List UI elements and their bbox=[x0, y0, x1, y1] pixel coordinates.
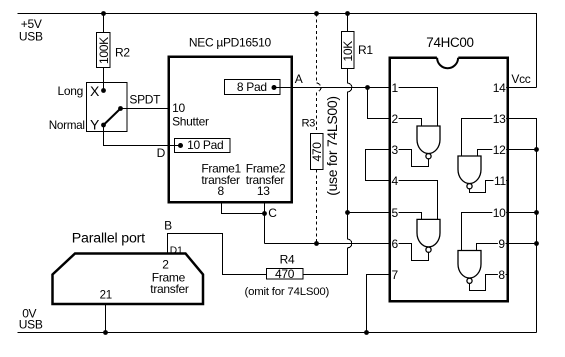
svg-text:100K: 100K bbox=[97, 37, 111, 64]
svg-text:12: 12 bbox=[493, 143, 506, 157]
svg-text:transfer: transfer bbox=[150, 282, 189, 296]
wire NEC pin 13 drop to node C bbox=[264, 202, 266, 244]
svg-text:1: 1 bbox=[392, 81, 399, 95]
chip notch bbox=[437, 58, 458, 69]
svg-text:6: 6 bbox=[392, 237, 399, 251]
nand gate C (pins 13,12 -> 11) bbox=[458, 156, 481, 189]
svg-text:A: A bbox=[295, 72, 303, 86]
pin 14 bbox=[492, 82, 506, 94]
node dot rail-pin7 bbox=[364, 330, 369, 335]
svg-text:7: 7 bbox=[392, 268, 399, 282]
nand gate D (pins 10,9 -> 8) bbox=[458, 251, 481, 284]
svg-text:(omit for 74LS00): (omit for 74LS00) bbox=[245, 286, 330, 298]
node dot switch pole bbox=[118, 106, 123, 111]
pin 7 bbox=[391, 269, 399, 281]
svg-text:D: D bbox=[157, 146, 166, 160]
wire pin14 to Vcc rail bbox=[493, 87, 537, 89]
svg-text:10: 10 bbox=[172, 101, 185, 115]
svg-text:470: 470 bbox=[275, 267, 295, 281]
wire parallel port pin 21 to ground rail bbox=[105, 304, 107, 333]
+5V USB label bbox=[19, 17, 43, 43]
op-amp U1 NEC uPD16510 chip body bbox=[169, 36, 292, 202]
pin 8 bbox=[498, 269, 506, 281]
wire pin 3 to pin 4 bracket and gate B input bbox=[366, 150, 438, 220]
wire gate A output to pin 3 bbox=[391, 150, 429, 167]
resistor R3 dashed net from +5V rail with hop over node A line bbox=[317, 14, 321, 244]
svg-text:USB: USB bbox=[19, 30, 43, 44]
svg-text:R3: R3 bbox=[302, 117, 316, 129]
node dot switch Y bbox=[101, 123, 106, 128]
svg-text:(use for 74LS00): (use for 74LS00) bbox=[324, 96, 340, 195]
node dot R3-C line bbox=[314, 241, 319, 246]
wire R1 top lead bbox=[347, 14, 349, 32]
wire node A branch to pin 2 and gate A input bbox=[368, 88, 422, 127]
node dot rail-R3 bbox=[314, 11, 319, 16]
wire R1 bottom lead with hops over A and C lines down to R4 bbox=[304, 69, 352, 275]
resistor R1 bbox=[341, 32, 373, 69]
svg-text:10 Pad: 10 Pad bbox=[187, 138, 223, 152]
switch lever bbox=[104, 109, 121, 126]
parallel port connector bbox=[53, 231, 204, 304]
svg-text:4: 4 bbox=[392, 174, 399, 188]
svg-text:Normal: Normal bbox=[49, 119, 85, 132]
wire switch pole to shutter pin bbox=[121, 108, 169, 110]
svg-text:21: 21 bbox=[100, 289, 112, 301]
pin 4 bbox=[391, 175, 399, 187]
node dot rail-R1 bbox=[345, 11, 350, 16]
svg-text:5: 5 bbox=[392, 206, 399, 220]
nand gate B (pins 4,5 -> 6) bbox=[417, 219, 440, 252]
pin 10 Shutter label bbox=[172, 101, 286, 198]
svg-text:8: 8 bbox=[218, 184, 225, 198]
pin 11 bbox=[494, 175, 507, 187]
svg-text:Shutter: Shutter bbox=[172, 115, 209, 129]
svg-text:R1: R1 bbox=[358, 43, 373, 57]
svg-text:Vcc: Vcc bbox=[511, 72, 530, 86]
pin 5 bbox=[391, 207, 399, 219]
wire pin 5 to gate B input bbox=[348, 213, 422, 220]
node dot pin5 junction bbox=[345, 210, 350, 215]
node dot rail-pin21 bbox=[103, 330, 108, 335]
10 Pad terminal bbox=[175, 139, 231, 153]
svg-text:2: 2 bbox=[162, 258, 169, 272]
wire NEC pin 8 drop bbox=[222, 202, 265, 214]
svg-text:10: 10 bbox=[493, 206, 506, 220]
wire pin 10 branch and gate D input bbox=[462, 213, 537, 251]
svg-text:NEC µPD16510: NEC µPD16510 bbox=[189, 36, 272, 50]
resistor R4 bbox=[245, 252, 330, 298]
node dot C bbox=[262, 211, 267, 216]
8 Pad terminal bbox=[225, 80, 281, 95]
wire node C line to pin 6 and gate B output hook bbox=[265, 244, 429, 261]
node dot chain pin12 bbox=[534, 147, 539, 152]
quad NAND U2 74HC00 chip body bbox=[390, 35, 508, 301]
node dot A pin2 branch bbox=[365, 85, 370, 90]
svg-text:R4: R4 bbox=[280, 252, 295, 266]
svg-text:SPDT: SPDT bbox=[129, 93, 161, 107]
wire pin 7 to ground rail bbox=[367, 275, 390, 333]
svg-text:14: 14 bbox=[493, 81, 506, 95]
wire switch Y to 10 Pad (node D) bbox=[104, 125, 181, 146]
svg-text:X: X bbox=[90, 83, 100, 99]
svg-text:8 Pad: 8 Pad bbox=[237, 80, 267, 94]
0V USB label bbox=[19, 307, 43, 332]
pin 12 bbox=[492, 144, 506, 156]
svg-text:C: C bbox=[268, 206, 277, 220]
pin number labels 74HC00 bbox=[391, 81, 506, 282]
pin 9 bbox=[498, 238, 506, 250]
pin 10 bbox=[492, 207, 506, 219]
wire gate C output to pin 11 bbox=[470, 181, 508, 193]
wire pin 9 branch and gate D input bbox=[477, 244, 537, 251]
wire +5V top rail bbox=[18, 14, 537, 88]
wire R2 bottom lead to switch X bbox=[103, 68, 105, 91]
pin 3 bbox=[391, 144, 399, 156]
svg-text:11: 11 bbox=[494, 174, 506, 188]
svg-text:3: 3 bbox=[392, 143, 399, 157]
svg-text:13: 13 bbox=[493, 112, 506, 126]
svg-text:8: 8 bbox=[498, 268, 505, 282]
svg-text:D1: D1 bbox=[170, 246, 183, 257]
wire gate D output to pin 8 bbox=[470, 275, 508, 291]
pin 13 bbox=[492, 113, 506, 125]
nand gate A (pins 1,2 -> 3) bbox=[417, 126, 440, 159]
svg-text:470: 470 bbox=[310, 142, 324, 162]
pin 2 bbox=[391, 113, 399, 125]
wire pin 13 to Vcc chain down to ground rail bbox=[462, 119, 537, 333]
svg-text:13: 13 bbox=[257, 184, 270, 198]
node dot switch X bbox=[101, 88, 106, 93]
node dot chain pin10 bbox=[534, 210, 539, 215]
resistor R3 bbox=[302, 96, 341, 195]
switch SPDT bbox=[49, 83, 161, 133]
node dot rail-R2 bbox=[101, 11, 106, 16]
svg-text:10K: 10K bbox=[341, 41, 355, 62]
wire node A: 8 Pad to pin 1 and gate A input bbox=[274, 88, 438, 127]
svg-text:9: 9 bbox=[498, 237, 505, 251]
svg-text:Parallel port: Parallel port bbox=[72, 231, 145, 247]
svg-text:2: 2 bbox=[392, 112, 399, 126]
node dot chain pin9 bbox=[534, 241, 539, 246]
wire pin 12 branch and gate C input bbox=[478, 150, 537, 157]
wire R2 top lead bbox=[103, 14, 105, 34]
resistor R2 bbox=[97, 33, 131, 68]
wire 0V bottom rail bbox=[18, 332, 537, 334]
pin 6 bbox=[391, 238, 399, 250]
svg-text:Y: Y bbox=[90, 116, 100, 132]
svg-text:USB: USB bbox=[19, 318, 43, 332]
svg-text:B: B bbox=[164, 219, 172, 233]
svg-text:R2: R2 bbox=[115, 46, 130, 60]
pin 1 bbox=[391, 82, 399, 94]
svg-text:74HC00: 74HC00 bbox=[426, 35, 473, 50]
wire R4 left lead to node B bbox=[168, 234, 267, 275]
svg-text:Long: Long bbox=[58, 84, 84, 98]
